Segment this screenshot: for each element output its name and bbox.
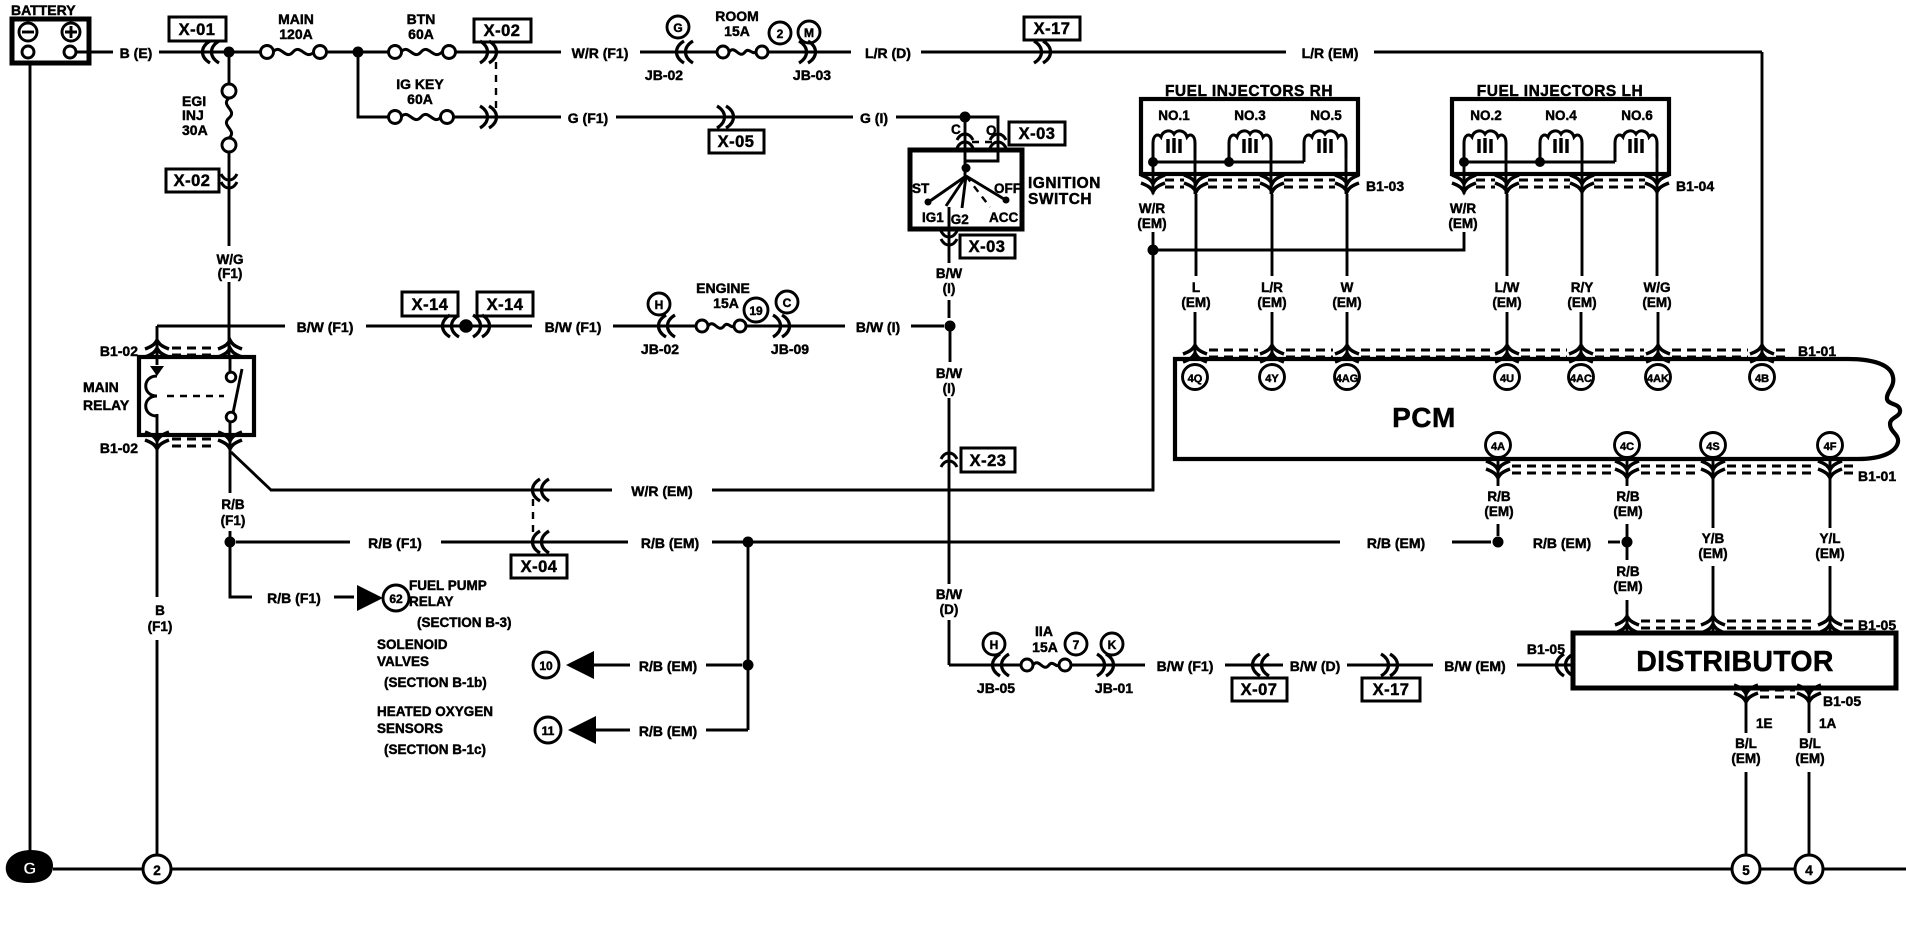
- svg-text:B1-05: B1-05: [1823, 693, 1861, 709]
- svg-text:W/R: W/R: [1450, 201, 1476, 216]
- svg-text:B: B: [155, 603, 165, 618]
- svg-text:(EM): (EM): [1332, 295, 1361, 310]
- wire W/R (F1) diagonal from relay: [231, 452, 271, 490]
- wire common bus inside LH box: [1464, 158, 1615, 162]
- svg-text:G: G: [23, 860, 36, 878]
- svg-text:R/B: R/B: [1616, 564, 1640, 579]
- svg-text:MAIN: MAIN: [83, 379, 119, 395]
- svg-text:(EM): (EM): [1448, 216, 1477, 231]
- wire to C terminal: [964, 117, 967, 150]
- svg-text:C: C: [783, 296, 792, 310]
- injector coil NO.3: [1229, 131, 1271, 158]
- svg-text:L: L: [1192, 280, 1200, 295]
- pin 4U: [1495, 365, 1520, 390]
- svg-text:R/B (EM): R/B (EM): [641, 535, 699, 551]
- svg-text:7: 7: [1073, 638, 1080, 652]
- wire B/L (EM) pin 1A: [1808, 688, 1811, 855]
- svg-text:SOLENOID: SOLENOID: [377, 637, 448, 652]
- svg-text:X-03: X-03: [969, 238, 1006, 256]
- pin 4Q: [1183, 365, 1208, 390]
- svg-text:NO.6: NO.6: [1621, 108, 1653, 123]
- svg-text:15A: 15A: [713, 295, 739, 311]
- wire B/W (I) from switch: [948, 300, 951, 318]
- wire W/R (F1): [640, 51, 717, 54]
- wire L/R (EM) down right side to PCM pin 4B: [1761, 52, 1764, 359]
- junction JB-09 circles 19 and C: [744, 298, 768, 322]
- wire W/G (EM): [1657, 194, 1658, 359]
- svg-text:W/G: W/G: [217, 252, 244, 267]
- connector X-02: [474, 19, 531, 42]
- svg-text:4Y: 4Y: [1265, 373, 1279, 385]
- injector coil NO.1: [1153, 131, 1195, 158]
- svg-text:X-17: X-17: [1373, 681, 1410, 699]
- svg-text:L/R (EM): L/R (EM): [1302, 45, 1359, 61]
- injector coil NO.2: [1464, 131, 1506, 158]
- svg-text:5: 5: [1742, 863, 1750, 878]
- node junction solenoid branch: [743, 660, 754, 671]
- pin 4AG: [1335, 365, 1360, 390]
- wire L/W (EM): [1506, 194, 1509, 359]
- svg-text:R/B (F1): R/B (F1): [368, 535, 422, 551]
- connector X-17: [1381, 654, 1398, 676]
- svg-text:BTN: BTN: [407, 11, 436, 27]
- injector coil NO.6: [1615, 131, 1657, 158]
- svg-text:B/W (F1): B/W (F1): [297, 319, 354, 335]
- pin 4AK: [1646, 365, 1671, 390]
- svg-text:B/W: B/W: [936, 587, 963, 602]
- junction JB-01 circles 7 and K: [1065, 633, 1087, 655]
- pin 4AC: [1569, 365, 1594, 390]
- svg-text:H: H: [990, 638, 999, 652]
- svg-text:RELAY: RELAY: [83, 397, 130, 413]
- node circle 4: [1795, 855, 1823, 883]
- connector B1-05 bottom of distributor: [1734, 685, 1758, 702]
- pin 4F: [1818, 433, 1843, 458]
- fuse BTN 60A: [389, 11, 456, 59]
- svg-text:SENSORS: SENSORS: [377, 721, 443, 736]
- node junction at BTN branch: [353, 47, 364, 58]
- svg-text:HEATED OXYGEN: HEATED OXYGEN: [377, 704, 493, 719]
- wire B/W (I) down: [949, 326, 950, 584]
- svg-text:VALVES: VALVES: [377, 654, 429, 669]
- svg-text:19: 19: [749, 304, 763, 318]
- svg-text:B1-02: B1-02: [100, 440, 138, 456]
- svg-text:B/L: B/L: [1735, 736, 1757, 751]
- wire Y/L (EM) from 4F: [1829, 459, 1832, 633]
- svg-text:NO.3: NO.3: [1234, 108, 1266, 123]
- svg-text:R/B (EM): R/B (EM): [639, 723, 697, 739]
- wire W/G (F1): [228, 282, 231, 359]
- node junction at ignition switch: [960, 112, 971, 123]
- svg-text:JB-02: JB-02: [641, 341, 679, 357]
- svg-text:IG2: IG2: [947, 212, 969, 227]
- svg-text:X-05: X-05: [718, 133, 755, 151]
- svg-text:(EM): (EM): [1731, 751, 1760, 766]
- connector X-23: [941, 453, 957, 467]
- svg-text:60A: 60A: [408, 26, 434, 42]
- fuse ROOM 15A: [715, 8, 768, 58]
- svg-text:JB-01: JB-01: [1095, 680, 1133, 696]
- wire: [326, 51, 389, 54]
- wire B (E): [76, 51, 261, 54]
- fuse IG KEY 60A: [389, 76, 454, 124]
- distributor: [1573, 633, 1896, 688]
- connector B1-01 top row: [1183, 345, 1207, 362]
- svg-text:(SECTION B-3): (SECTION B-3): [417, 615, 512, 630]
- svg-text:4C: 4C: [1620, 441, 1634, 453]
- svg-text:R/B: R/B: [221, 497, 245, 512]
- wire L/R (EM): [1374, 51, 1762, 54]
- svg-text:X-04: X-04: [521, 558, 558, 576]
- wire B/L (EM) pin 1E: [1745, 688, 1748, 855]
- svg-text:11: 11: [542, 724, 555, 738]
- connector X-05: [717, 106, 734, 128]
- ignition switch U1: [910, 150, 1022, 229]
- connector X-04 on W/R row: [533, 479, 550, 501]
- svg-text:(F1): (F1): [218, 266, 243, 281]
- svg-text:IG KEY: IG KEY: [396, 76, 444, 92]
- svg-text:B1-03: B1-03: [1366, 178, 1404, 194]
- svg-text:JB-09: JB-09: [771, 341, 809, 357]
- wire R/B (EM) from 4C to distributor: [1626, 459, 1629, 633]
- wire EGI branch down: [228, 52, 231, 84]
- svg-text:4AG: 4AG: [1336, 373, 1359, 385]
- svg-text:JB-05: JB-05: [977, 680, 1015, 696]
- svg-text:B/W (F1): B/W (F1): [545, 319, 602, 335]
- wire L/R (D): [921, 51, 1286, 54]
- wire: [228, 152, 231, 246]
- svg-text:G (I): G (I): [860, 110, 888, 126]
- svg-text:G (F1): G (F1): [568, 110, 608, 126]
- wire B/W (D) row to distributor: [949, 664, 1021, 667]
- svg-text:(EM): (EM): [1567, 295, 1596, 310]
- svg-text:X-23: X-23: [970, 452, 1007, 470]
- svg-text:15A: 15A: [1032, 639, 1058, 655]
- svg-text:NO.1: NO.1: [1158, 108, 1190, 123]
- svg-text:4: 4: [1805, 863, 1813, 878]
- svg-text:(EM): (EM): [1613, 579, 1642, 594]
- junction JB-02: [667, 16, 689, 38]
- svg-text:2: 2: [153, 863, 161, 878]
- svg-text:B1-04: B1-04: [1676, 178, 1714, 194]
- svg-text:X-14: X-14: [487, 296, 524, 314]
- svg-text:ST: ST: [912, 181, 930, 196]
- wire common bus inside RH box: [1153, 158, 1304, 162]
- svg-text:W/R (EM): W/R (EM): [631, 483, 692, 499]
- wire R/B (EM) from 4A: [1497, 459, 1500, 536]
- wire to O terminal: [965, 117, 998, 150]
- node junction R/B row: [225, 537, 236, 548]
- svg-text:IG1: IG1: [922, 210, 944, 225]
- node circle 5: [1732, 855, 1760, 883]
- svg-text:H: H: [655, 298, 664, 312]
- wire: [455, 51, 561, 54]
- svg-text:INJ: INJ: [182, 107, 204, 123]
- svg-text:FUEL PUMP: FUEL PUMP: [409, 578, 487, 593]
- wire B/W (EM): [1517, 664, 1573, 667]
- pin 4C: [1615, 433, 1640, 458]
- svg-text:(EM): (EM): [1642, 295, 1671, 310]
- connector B1-05 top of distributor: [1615, 616, 1639, 633]
- svg-text:1A: 1A: [1819, 716, 1837, 731]
- svg-text:L/W: L/W: [1495, 280, 1520, 295]
- svg-text:M: M: [804, 26, 814, 40]
- svg-text:IIA: IIA: [1035, 623, 1053, 639]
- wire G (I): [896, 116, 965, 119]
- svg-text:X-14: X-14: [412, 296, 449, 314]
- svg-text:X-01: X-01: [179, 21, 216, 39]
- pin 4S: [1701, 433, 1726, 458]
- svg-text:30A: 30A: [182, 122, 208, 138]
- svg-text:(SECTION B-1c): (SECTION B-1c): [384, 742, 486, 757]
- pin 4A: [1486, 433, 1511, 458]
- svg-text:(I): (I): [943, 281, 956, 296]
- svg-text:X-17: X-17: [1034, 20, 1071, 38]
- connector X-01: [169, 17, 226, 41]
- wires injector outputs RH: [1153, 158, 1346, 194]
- svg-text:R/B (EM): R/B (EM): [1367, 535, 1425, 551]
- svg-text:(EM): (EM): [1492, 295, 1521, 310]
- svg-text:(D): (D): [940, 602, 959, 617]
- svg-text:4AK: 4AK: [1647, 373, 1669, 385]
- svg-text:(EM): (EM): [1484, 504, 1513, 519]
- node junction B/W (I) with B/W (F1) row: [945, 321, 956, 332]
- wire R/B branch down: [747, 542, 750, 730]
- svg-text:B1-01: B1-01: [1798, 343, 1836, 359]
- battery: [11, 2, 89, 63]
- svg-text:OFF: OFF: [994, 181, 1021, 196]
- svg-text:DISTRIBUTOR: DISTRIBUTOR: [1636, 646, 1834, 678]
- svg-text:MAIN: MAIN: [278, 11, 314, 27]
- svg-text:X-03: X-03: [1019, 125, 1056, 143]
- svg-text:B/W (F1): B/W (F1): [1157, 658, 1214, 674]
- svg-text:B (E): B (E): [120, 45, 153, 61]
- connector X-17: [1024, 17, 1080, 40]
- svg-text:(EM): (EM): [1181, 295, 1210, 310]
- svg-text:(SECTION B-1b): (SECTION B-1b): [384, 675, 487, 690]
- connector B1-03: [1141, 175, 1165, 192]
- svg-text:4F: 4F: [1824, 441, 1837, 453]
- svg-text:B1-05: B1-05: [1527, 641, 1565, 657]
- wire L/R (EM): [1271, 194, 1274, 359]
- svg-text:(EM): (EM): [1698, 546, 1727, 561]
- svg-text:4A: 4A: [1491, 441, 1505, 453]
- node junction at X-01: [224, 47, 235, 58]
- svg-text:PCM: PCM: [1392, 402, 1456, 433]
- wire L (EM): [1195, 194, 1196, 359]
- svg-text:(F1): (F1): [221, 513, 246, 528]
- wire B/W (F1): [613, 325, 696, 328]
- svg-text:ACC: ACC: [989, 210, 1018, 225]
- fuse IIA 15A: [1021, 623, 1071, 671]
- wire W (EM): [1346, 194, 1349, 359]
- svg-text:15A: 15A: [724, 23, 750, 39]
- wire B/W (F1) row: [157, 325, 532, 328]
- wire R/B (F1) down from relay: [229, 435, 232, 597]
- fuse ENGINE 15A: [696, 280, 750, 332]
- svg-text:SWITCH: SWITCH: [1028, 191, 1092, 208]
- svg-text:JB-02: JB-02: [645, 67, 683, 83]
- wire R/B (EM): [712, 541, 1491, 544]
- svg-text:2: 2: [777, 27, 784, 41]
- connector B1-04: [1452, 175, 1476, 192]
- svg-text:60A: 60A: [407, 91, 433, 107]
- svg-text:(I): (I): [943, 381, 956, 396]
- wire W/R (EM): [270, 250, 1153, 490]
- wire W/R (EM) link RH to LH: [1153, 232, 1464, 250]
- svg-text:4Q: 4Q: [1188, 373, 1203, 385]
- svg-text:(EM): (EM): [1257, 295, 1286, 310]
- wire W/R (EM) from RH injectors: [1152, 232, 1155, 490]
- svg-text:ROOM: ROOM: [715, 8, 759, 24]
- svg-text:R/B: R/B: [1487, 489, 1511, 504]
- injector coil NO.4: [1540, 131, 1582, 158]
- svg-text:IGNITION: IGNITION: [1028, 175, 1101, 192]
- svg-text:BATTERY: BATTERY: [11, 2, 76, 18]
- svg-text:L/R (D): L/R (D): [865, 45, 911, 61]
- svg-text:W: W: [1341, 280, 1354, 295]
- svg-text:B/W (EM): B/W (EM): [1444, 658, 1505, 674]
- injector coil NO.5: [1304, 131, 1346, 158]
- wire B (F1) down to ground bus: [156, 435, 159, 855]
- svg-text:X-07: X-07: [1241, 681, 1278, 699]
- svg-text:JB-03: JB-03: [793, 67, 831, 83]
- connector X-03 bottom: [948, 229, 951, 263]
- wire B/W (D) down: [948, 620, 951, 665]
- connector X-03 top arrows: [957, 134, 973, 148]
- svg-text:X-02: X-02: [484, 22, 521, 40]
- svg-text:R/B (EM): R/B (EM): [1533, 535, 1591, 551]
- svg-text:B/W: B/W: [936, 366, 963, 381]
- fuel pump relay arrow 62: [357, 585, 383, 611]
- svg-text:10: 10: [539, 659, 553, 673]
- connector B1-01 bottom row: [1486, 461, 1510, 478]
- svg-text:B1-02: B1-02: [100, 343, 138, 359]
- svg-text:L/R: L/R: [1261, 280, 1283, 295]
- wire B/W (F1): [1225, 664, 1283, 667]
- svg-text:B/W (I): B/W (I): [856, 319, 900, 335]
- connector X-07: [1253, 654, 1270, 676]
- node circle 2: [143, 855, 171, 883]
- wires injector outputs LH: [1464, 158, 1657, 194]
- svg-text:G: G: [673, 21, 682, 35]
- svg-text:(EM): (EM): [1137, 216, 1166, 231]
- wire R/B (F1) row: [236, 541, 628, 544]
- junction JB-05 circle H: [983, 633, 1005, 655]
- svg-text:R/B: R/B: [1616, 489, 1640, 504]
- svg-text:B/W: B/W: [936, 266, 963, 281]
- svg-text:(EM): (EM): [1795, 751, 1824, 766]
- junction JB-03: [769, 22, 791, 44]
- svg-text:4U: 4U: [1500, 373, 1514, 385]
- wire Y/B (EM) from 4S: [1712, 459, 1715, 633]
- svg-text:(EM): (EM): [1613, 504, 1642, 519]
- PCM U2: [1175, 359, 1900, 459]
- svg-text:RELAY: RELAY: [409, 594, 454, 609]
- node junction R/B branch: [743, 537, 754, 548]
- svg-text:B/L: B/L: [1799, 736, 1821, 751]
- ground bus wire: [53, 868, 1906, 871]
- svg-text:(F1): (F1): [148, 619, 173, 634]
- wire B/W (D): [1347, 664, 1433, 667]
- ground: [6, 850, 53, 883]
- wire battery negative down to ground: [29, 63, 32, 853]
- svg-text:Y/L: Y/L: [1819, 531, 1840, 546]
- svg-text:4AC: 4AC: [1570, 373, 1592, 385]
- wire G (F1): [453, 116, 853, 119]
- wire R/B (F1) to fuel pump relay: [230, 542, 354, 597]
- svg-text:X-02: X-02: [174, 172, 211, 190]
- svg-text:ENGINE: ENGINE: [696, 280, 750, 296]
- svg-text:R/B (F1): R/B (F1): [267, 590, 321, 606]
- junction JB-02 circle H: [648, 293, 670, 315]
- svg-text:NO.2: NO.2: [1470, 108, 1502, 123]
- svg-text:W/G: W/G: [1644, 280, 1671, 295]
- svg-text:W/R: W/R: [1139, 201, 1165, 216]
- svg-text:(EM): (EM): [1815, 546, 1844, 561]
- svg-text:K: K: [1108, 638, 1117, 652]
- svg-text:4S: 4S: [1706, 441, 1719, 453]
- svg-text:NO.4: NO.4: [1545, 108, 1577, 123]
- svg-text:B/W (D): B/W (D): [1290, 658, 1341, 674]
- svg-text:R/Y: R/Y: [1571, 280, 1594, 295]
- connector X-14 pair: [402, 292, 458, 316]
- wire R/Y (EM): [1581, 194, 1582, 359]
- svg-text:W/R (F1): W/R (F1): [572, 45, 629, 61]
- fuse EGI INJ 30A: [182, 84, 236, 152]
- svg-text:1E: 1E: [1756, 716, 1773, 731]
- svg-text:62: 62: [389, 592, 403, 606]
- main relay: [83, 357, 254, 435]
- connector X-04: [533, 531, 550, 553]
- svg-text:Y/B: Y/B: [1702, 531, 1725, 546]
- svg-text:4B: 4B: [1755, 373, 1769, 385]
- wire R/B (EM) between 4A and 4C: [1608, 541, 1620, 544]
- wire B/W (I): [911, 325, 944, 328]
- svg-text:120A: 120A: [279, 26, 312, 42]
- fuse MAIN 120A: [261, 11, 327, 59]
- svg-text:R/B (EM): R/B (EM): [639, 658, 697, 674]
- pin 4B: [1750, 365, 1775, 390]
- svg-text:B1-01: B1-01: [1858, 468, 1896, 484]
- connector X-02 vertical: [166, 169, 219, 192]
- wire IG KEY branch: [358, 52, 389, 117]
- pin 4Y: [1260, 365, 1285, 390]
- svg-text:NO.5: NO.5: [1310, 108, 1342, 123]
